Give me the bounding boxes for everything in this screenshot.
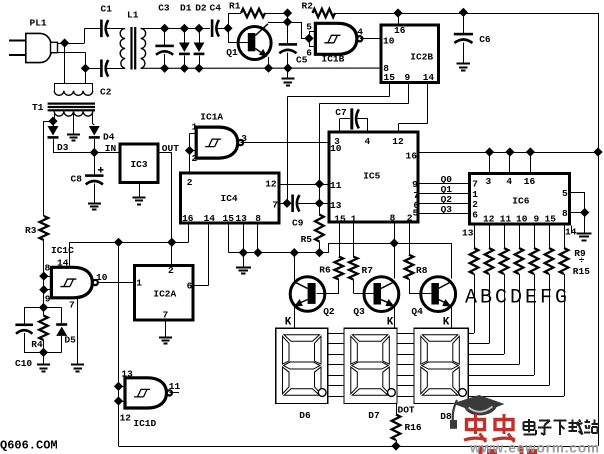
svg-text:16: 16 — [524, 176, 536, 187]
svg-text:D2: D2 — [195, 3, 207, 14]
svg-text:D5: D5 — [64, 335, 76, 346]
svg-text:D1: D1 — [180, 3, 192, 14]
svg-text:C4: C4 — [210, 2, 222, 13]
svg-text:Q2: Q2 — [323, 306, 335, 317]
svg-text:IN: IN — [105, 143, 117, 154]
svg-text:IC3: IC3 — [130, 159, 147, 170]
svg-text:C1: C1 — [101, 4, 113, 15]
svg-text:R8: R8 — [416, 265, 428, 276]
svg-text:C: C — [495, 286, 507, 309]
svg-text:15: 15 — [384, 72, 396, 83]
svg-text:10: 10 — [96, 272, 108, 283]
svg-text:R1: R1 — [229, 0, 241, 11]
svg-text:9: 9 — [412, 179, 418, 190]
svg-text:5: 5 — [562, 188, 568, 199]
svg-text:IC1B: IC1B — [322, 54, 345, 65]
svg-text:T1: T1 — [32, 102, 44, 113]
svg-text:8: 8 — [45, 262, 51, 273]
svg-text:12: 12 — [265, 179, 277, 190]
svg-text:11: 11 — [330, 180, 342, 191]
svg-text:2: 2 — [187, 177, 193, 188]
svg-text:C6: C6 — [479, 34, 491, 45]
svg-text:10: 10 — [330, 143, 342, 154]
svg-text:5: 5 — [306, 22, 312, 33]
svg-text:IC1D: IC1D — [133, 418, 156, 429]
svg-text:2: 2 — [407, 213, 413, 224]
svg-text:OUT: OUT — [162, 143, 179, 154]
svg-text:www.eeworm.com: www.eeworm.com — [469, 441, 600, 454]
svg-text:L1: L1 — [127, 10, 139, 21]
svg-text:K: K — [443, 317, 450, 329]
svg-text:D: D — [510, 286, 522, 309]
svg-text:÷: ÷ — [579, 255, 585, 266]
svg-text:13: 13 — [330, 200, 342, 211]
svg-text:12: 12 — [120, 413, 132, 424]
svg-text:13: 13 — [462, 227, 474, 238]
svg-text:IC5: IC5 — [363, 170, 380, 181]
svg-text:2: 2 — [168, 265, 174, 276]
svg-text:G: G — [555, 286, 567, 309]
svg-text:K: K — [387, 317, 394, 329]
svg-text:4: 4 — [365, 136, 371, 147]
svg-text:12: 12 — [483, 213, 495, 224]
svg-text:Q4: Q4 — [411, 306, 423, 317]
svg-text:R2: R2 — [302, 0, 314, 11]
svg-text:PL1: PL1 — [30, 18, 47, 29]
svg-text:IC2A: IC2A — [153, 289, 176, 300]
svg-text:8: 8 — [255, 213, 261, 224]
svg-text:D4: D4 — [103, 132, 115, 143]
svg-text:13: 13 — [121, 369, 133, 380]
svg-text:9: 9 — [534, 213, 540, 224]
svg-text:Q3: Q3 — [353, 306, 365, 317]
svg-text:14: 14 — [57, 258, 69, 269]
svg-text:2: 2 — [192, 153, 198, 164]
svg-text:R7: R7 — [362, 265, 374, 276]
svg-text:6: 6 — [187, 280, 193, 291]
svg-text:C7: C7 — [335, 107, 347, 118]
svg-text:Q3: Q3 — [441, 204, 453, 215]
svg-text:7: 7 — [163, 310, 169, 321]
svg-text:10: 10 — [516, 213, 528, 224]
svg-text:D3: D3 — [57, 142, 69, 153]
svg-text:1: 1 — [136, 277, 142, 288]
svg-text:1: 1 — [351, 214, 357, 225]
svg-text:7: 7 — [69, 299, 75, 310]
svg-text:DOT: DOT — [398, 404, 415, 415]
svg-text:14: 14 — [204, 213, 216, 224]
svg-text:K: K — [285, 316, 292, 328]
svg-text:15: 15 — [334, 214, 346, 225]
svg-text:IC1A: IC1A — [200, 112, 223, 123]
svg-text:3: 3 — [241, 133, 247, 144]
svg-text:11: 11 — [500, 213, 512, 224]
svg-text:D7: D7 — [368, 410, 380, 421]
svg-text:F: F — [540, 286, 552, 309]
svg-text:IC6: IC6 — [512, 195, 529, 206]
svg-text:C2: C2 — [100, 87, 112, 98]
svg-text:7: 7 — [272, 200, 278, 211]
svg-text:IC1C: IC1C — [51, 245, 74, 256]
svg-text:Q606.COM: Q606.COM — [0, 438, 58, 452]
svg-text:8: 8 — [390, 213, 396, 224]
svg-text:Q1: Q1 — [226, 47, 238, 58]
svg-text:C10: C10 — [15, 358, 32, 369]
svg-text:1: 1 — [192, 122, 198, 133]
svg-text:IC2B: IC2B — [410, 52, 433, 63]
svg-text:A: A — [465, 286, 477, 309]
svg-text:8: 8 — [562, 208, 568, 219]
svg-text:15: 15 — [223, 213, 235, 224]
svg-text:C3: C3 — [158, 3, 170, 14]
svg-text:13: 13 — [235, 213, 247, 224]
svg-text:D6: D6 — [299, 410, 311, 421]
svg-text:14: 14 — [423, 72, 435, 83]
svg-text:6: 6 — [472, 209, 478, 220]
svg-text:15: 15 — [545, 213, 557, 224]
svg-text:4: 4 — [357, 26, 363, 37]
svg-text:B: B — [480, 286, 492, 309]
svg-text:3: 3 — [486, 176, 492, 187]
svg-text:14: 14 — [565, 226, 577, 237]
svg-text:R4: R4 — [31, 339, 43, 350]
svg-text:C9: C9 — [292, 218, 304, 229]
svg-text:5: 5 — [413, 207, 419, 218]
svg-text:10: 10 — [383, 36, 395, 47]
svg-text:R6: R6 — [319, 265, 331, 276]
svg-text:6: 6 — [306, 47, 312, 58]
svg-text:R15: R15 — [573, 266, 590, 277]
svg-text:R3: R3 — [25, 225, 37, 236]
svg-text:9: 9 — [45, 294, 51, 305]
svg-text:C8: C8 — [71, 173, 83, 184]
svg-text:16: 16 — [394, 25, 406, 36]
svg-text:4: 4 — [506, 176, 512, 187]
svg-text:E: E — [525, 286, 537, 309]
svg-text:16: 16 — [406, 151, 418, 162]
svg-text:9: 9 — [405, 72, 411, 83]
svg-text:R16: R16 — [405, 422, 422, 433]
svg-text:11: 11 — [169, 381, 181, 392]
svg-text:12: 12 — [392, 136, 404, 147]
svg-text:16: 16 — [182, 213, 194, 224]
svg-text:IC4: IC4 — [221, 193, 238, 204]
svg-text:R5: R5 — [301, 234, 313, 245]
